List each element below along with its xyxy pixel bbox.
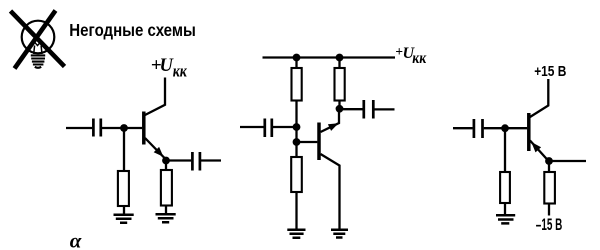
wire emitter node down [165,161,167,171]
wire input c3 [453,127,473,129]
svg-text:кк: кк [173,61,187,80]
node rail right [336,54,344,62]
wire Ra down through nodes to Rc [295,101,297,158]
transistor Q3 collector [530,79,548,117]
wire input c1 [66,127,92,129]
wire Rc to ground [295,192,297,230]
wire cap to base [102,127,142,129]
wire node to output cap c2 [340,108,363,110]
capacitor C1 input [93,119,100,137]
wire R2 to ground [165,206,167,215]
wire base c2 [297,141,318,143]
node emitter c3 [545,157,553,165]
resistor Ra upper left [292,68,302,101]
wire R1 to ground [123,206,125,215]
svg-text:α: α [70,229,82,250]
wire emitter node to cap [166,159,191,161]
resistor R2 emitter [161,170,172,206]
wire rail to Rb [338,58,340,69]
wire node down to R1 [123,128,125,171]
node base c3 [501,124,509,132]
wire output c1 [201,159,221,161]
wire R3 to ground [504,203,506,215]
wire Rb to emitter node [338,101,340,110]
ground c1 right [156,214,176,222]
power rail wire [263,56,396,58]
crossed-out lamp icon [11,11,65,69]
wire cap to divider node [273,126,297,128]
capacitor C3 input c2 [265,119,272,138]
svg-text:Негодные схемы: Негодные схемы [69,20,196,40]
resistor R1 base bias [118,171,129,206]
node emitter c1 [162,157,170,165]
transistor Q2 base bar [317,123,321,161]
label -15 V [536,215,563,234]
wire emitter node down [548,161,550,172]
ground c2 right [331,230,348,238]
transistor Q1 base bar [142,112,146,145]
label +Ukk circuit 1 [151,55,187,81]
wire input c2 [240,126,264,128]
wire output c2 [375,108,395,110]
resistor Rc lower left [291,157,302,192]
node divider lower [293,138,301,146]
ground c3 [496,215,515,223]
capacitor C4 output c2 [364,100,374,119]
svg-text:–15 В: –15 В [536,215,563,234]
transistor Q3 base bar [527,113,531,151]
transistor Q2 collector down [321,154,340,230]
capacitor C2 output [192,152,200,171]
transistor Q1 emitter with arrow [145,138,166,159]
wire R4 to -15V [548,204,550,216]
node divider upper [293,123,301,131]
resistor R3 base [500,172,510,203]
wire cap to base c3 [484,127,528,129]
wire rail to Ra [295,58,297,69]
svg-text:+15 В: +15 В [534,64,566,80]
capacitor C5 input c3 [474,119,483,138]
transistor Q2 emitter up with arrow [321,109,340,132]
ground c1 left [114,215,134,223]
wire node down to R3 [504,128,506,172]
resistor Rb upper right [335,68,345,101]
wire output c3 [549,160,586,162]
node emitter c2 [336,105,344,113]
label +Ukk circuit 2 [395,44,427,67]
node base c1 [120,124,128,132]
transistor Q1 collector [145,78,165,116]
node rail left [293,54,301,62]
svg-text:кк: кк [412,50,427,67]
label +15 V [534,64,566,80]
transistor Q3 emitter with inward arrow [530,141,549,162]
ground c2 left [287,230,305,238]
resistor R4 emitter [544,172,555,204]
